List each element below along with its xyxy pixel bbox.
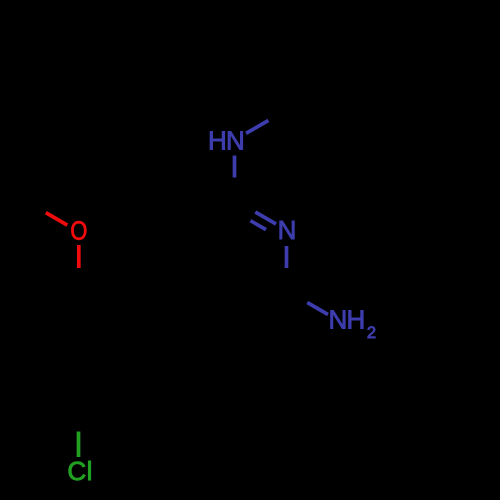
- double bond C2=N1 inner line blue half: [251, 221, 267, 230]
- bond O-Cring black half: [77, 268, 81, 291]
- svg-text:N: N: [278, 215, 297, 245]
- double bond C2=N1 main line black half: [235, 200, 256, 212]
- bond N(H)-C2 blue half: [233, 156, 237, 178]
- bond N(H)-cyclohexyl blue half: [246, 120, 269, 133]
- svg-text:O: O: [70, 217, 87, 246]
- svg-text:C: C: [67, 456, 86, 486]
- bond Cring-Cl black half: [77, 411, 81, 432]
- bond N(H)-cyclohexyl black half: [269, 110, 287, 120]
- double bond C2=N1 inner line black half: [237, 213, 251, 221]
- bond O-CH3 red half: [46, 213, 68, 226]
- wire: cyclohexyl ring (black, on black background): [287, 20, 391, 140]
- wire: benzene ring left (black): [27, 292, 131, 412]
- wire: benzene-pyridine biaryl bond (black): [131, 291, 183, 322]
- svg-text:H: H: [347, 305, 366, 335]
- bond Cring-Cl green half: [77, 432, 81, 458]
- bond N1-C6 black half: [285, 268, 289, 291]
- svg-text:l: l: [87, 456, 93, 486]
- wire: pyridine ring black edges: [183, 200, 287, 321]
- svg-text:N: N: [226, 126, 245, 156]
- bond O-Cring red half: [77, 245, 81, 268]
- bond N1-C6 blue half: [285, 246, 289, 268]
- bond N(H)-C2 black half: [233, 178, 237, 201]
- svg-text:N: N: [329, 305, 348, 335]
- bond C6-NH2 blue half: [307, 303, 328, 315]
- double bond C2=N1 main line blue half: [255, 212, 276, 224]
- svg-text:H: H: [208, 126, 227, 156]
- bond O-CH3 black half: [25, 201, 46, 213]
- bond C6-NH2 black half: [287, 291, 308, 303]
- svg-text:2: 2: [367, 324, 376, 342]
